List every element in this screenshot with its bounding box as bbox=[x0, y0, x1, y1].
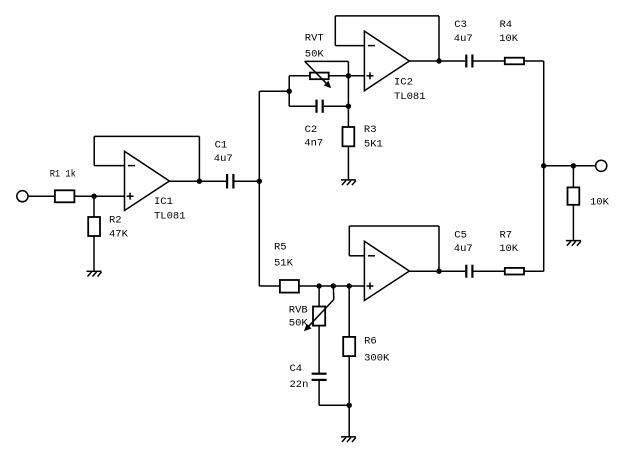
svg-text:R1 1k: R1 1k bbox=[50, 168, 76, 180]
resistor R7 bbox=[505, 268, 524, 275]
label R7 bbox=[500, 230, 513, 242]
node RVB wiper bbox=[331, 283, 336, 288]
svg-text:4u7: 4u7 bbox=[454, 33, 473, 45]
label C2 bbox=[305, 124, 318, 136]
capacitor C3 bbox=[466, 55, 472, 68]
wire IC1 feedback top bbox=[94, 135, 199, 137]
svg-text:IC1: IC1 bbox=[154, 196, 173, 208]
output terminal bbox=[596, 160, 607, 171]
label 10K bbox=[499, 33, 519, 45]
label C1 bbox=[215, 140, 228, 152]
label IC1 bbox=[154, 196, 173, 208]
svg-text:R7: R7 bbox=[500, 230, 513, 242]
RVT wiper arrow bbox=[305, 61, 332, 88]
wire RVT right vertical bbox=[347, 61, 349, 106]
wire C3 to R4 bbox=[474, 60, 505, 62]
wire IC3 output to C5 bbox=[409, 270, 465, 272]
input terminal bbox=[17, 191, 28, 202]
capacitor C4 bbox=[312, 374, 327, 380]
resistor R4 bbox=[505, 58, 524, 65]
svg-text:R3: R3 bbox=[364, 124, 377, 136]
label 4u7 bbox=[454, 243, 473, 255]
potentiometer RVT body bbox=[310, 73, 329, 80]
wire IC3 feedback left vertical bbox=[348, 226, 350, 256]
RVB wiper arrow bbox=[304, 286, 334, 331]
label R4 bbox=[500, 19, 513, 31]
wire IC1 feedback vertical from output bbox=[198, 136, 200, 181]
label RVT bbox=[305, 32, 324, 44]
node load junction bbox=[571, 163, 576, 168]
svg-text:C4: C4 bbox=[290, 363, 303, 375]
resistor R6 bbox=[343, 337, 355, 356]
node IC3 output bbox=[436, 269, 441, 274]
svg-text:10K: 10K bbox=[499, 33, 519, 45]
wire IC2 output to C3 bbox=[409, 60, 465, 62]
wire node to R2 bbox=[93, 196, 95, 217]
svg-text:RVB: RVB bbox=[289, 304, 308, 316]
wire node to R3 bbox=[347, 106, 349, 127]
label TL081 bbox=[394, 91, 426, 103]
wire IC3 feedback top bbox=[349, 225, 439, 227]
potentiometer RVB body bbox=[313, 307, 325, 326]
svg-text:C5: C5 bbox=[454, 230, 467, 242]
wire RVB to C4 bbox=[318, 326, 320, 374]
wire C2 rail right bbox=[324, 105, 349, 107]
wire C5 to R7 bbox=[474, 270, 505, 272]
node IC1 output bbox=[197, 179, 202, 184]
wire R2 to ground bbox=[93, 236, 95, 271]
node IC2 output bbox=[436, 58, 441, 63]
label 4u7 bbox=[454, 33, 473, 45]
ground below R2 bbox=[87, 271, 102, 276]
node RVB top bbox=[316, 283, 321, 288]
wire R6 to ground bbox=[348, 356, 350, 437]
svg-text:47K: 47K bbox=[109, 229, 129, 241]
svg-text:22n: 22n bbox=[290, 379, 309, 391]
resistor 10K load bbox=[568, 187, 580, 204]
svg-text:C3: C3 bbox=[454, 19, 467, 31]
label 5K1 bbox=[364, 138, 383, 150]
svg-text:5K1: 5K1 bbox=[364, 138, 383, 150]
wire R5 to IC3 plus input bbox=[299, 285, 365, 287]
resistor R2 bbox=[88, 217, 100, 236]
wire IC2 feedback left vertical bbox=[334, 16, 336, 46]
label R6 bbox=[364, 335, 377, 347]
wire node to load resistor bbox=[572, 166, 574, 188]
ground below R6 bbox=[341, 437, 356, 442]
op-amp IC2 bbox=[364, 31, 409, 91]
node output rail left bbox=[541, 163, 546, 168]
svg-text:4u7: 4u7 bbox=[454, 243, 473, 255]
svg-text:4u7: 4u7 bbox=[214, 153, 233, 165]
node junction R1/R2 bbox=[91, 194, 96, 199]
wire C4 down bbox=[318, 380, 320, 405]
node R6 top bbox=[347, 283, 352, 288]
capacitor C1 bbox=[227, 174, 233, 189]
svg-text:R6: R6 bbox=[364, 335, 377, 347]
label 51K bbox=[274, 258, 294, 270]
label 10K load bbox=[590, 197, 610, 209]
svg-text:R5: R5 bbox=[274, 242, 287, 254]
svg-text:TL081: TL081 bbox=[394, 91, 426, 103]
node RVT right on plus rail bbox=[346, 73, 351, 78]
wire left branch vertical bbox=[288, 76, 290, 106]
svg-text:51K: 51K bbox=[274, 258, 294, 270]
svg-text:R2: R2 bbox=[109, 215, 122, 227]
wire IC1 feedback to minus input bbox=[94, 165, 124, 167]
wire RVT rail to IC2 plus bbox=[289, 75, 364, 77]
node C2/R3 junction bbox=[346, 104, 351, 109]
svg-text:50K: 50K bbox=[305, 49, 325, 61]
capacitor C2 bbox=[317, 100, 323, 113]
label 22n bbox=[290, 379, 309, 391]
wire node to RVB bbox=[318, 286, 320, 307]
svg-text:RVT: RVT bbox=[305, 32, 324, 44]
ground below R3 bbox=[341, 180, 356, 185]
label IC2 bbox=[394, 77, 413, 89]
wire IC3 feedback right vertical bbox=[438, 226, 440, 271]
svg-text:C1: C1 bbox=[215, 140, 228, 152]
wire load to ground bbox=[572, 205, 574, 241]
svg-text:IC2: IC2 bbox=[394, 77, 413, 89]
svg-text:50K: 50K bbox=[289, 318, 309, 330]
label R2 bbox=[109, 215, 122, 227]
svg-text:10K: 10K bbox=[499, 243, 519, 255]
ground below load bbox=[566, 241, 581, 246]
wire R4 to right trunk bbox=[524, 60, 544, 62]
wire IC2 feedback right vertical bbox=[438, 16, 440, 61]
label 4n7 bbox=[304, 137, 323, 149]
label R5 bbox=[274, 242, 287, 254]
wire R7 to right trunk bbox=[524, 270, 544, 272]
wire node to R6 bbox=[348, 286, 350, 337]
svg-text:C2: C2 bbox=[305, 124, 318, 136]
label C4 bbox=[290, 363, 303, 375]
op-amp IC3 bbox=[364, 241, 409, 300]
label 50K bbox=[289, 318, 309, 330]
label 47K bbox=[109, 229, 129, 241]
wire C4 to R6 branch bbox=[319, 404, 349, 406]
svg-text:10K: 10K bbox=[590, 197, 610, 209]
node C4/R6 junction bbox=[347, 403, 352, 408]
label 300K bbox=[364, 353, 390, 365]
capacitor C5 bbox=[466, 265, 472, 278]
resistor R1 bbox=[55, 190, 75, 202]
svg-text:300K: 300K bbox=[364, 353, 390, 365]
wire trunk corner to R5 bbox=[259, 285, 280, 287]
wire RVT wiper top bbox=[305, 60, 349, 62]
wire C2 rail left bbox=[289, 105, 315, 107]
resistor R5 bbox=[280, 280, 299, 293]
svg-text:4n7: 4n7 bbox=[304, 137, 323, 149]
wire input to R1 bbox=[28, 195, 55, 197]
label R3 bbox=[364, 124, 377, 136]
op-amp IC1 bbox=[125, 151, 170, 210]
svg-text:TL081: TL081 bbox=[154, 210, 186, 222]
label TL081 bbox=[154, 210, 186, 222]
label C3 bbox=[454, 19, 467, 31]
label C5 bbox=[454, 230, 467, 242]
label R1 1k bbox=[50, 168, 76, 180]
wire IC1 output to C1 bbox=[169, 180, 226, 182]
node left branch bbox=[287, 89, 292, 94]
wire R1 to IC1 plus input bbox=[74, 195, 124, 197]
wire output rail bbox=[544, 165, 596, 167]
wire trunk to tone network bbox=[259, 90, 289, 92]
wire IC2 feedback top bbox=[335, 15, 439, 17]
resistor R3 bbox=[343, 127, 355, 146]
wire IC1 feedback left vertical bbox=[93, 136, 95, 165]
node C1 trunk junction bbox=[257, 179, 262, 184]
wire IC2 feedback to minus input bbox=[335, 45, 364, 47]
wire IC3 feedback to minus input bbox=[349, 255, 364, 257]
label RVB bbox=[289, 304, 308, 316]
label 10K bbox=[499, 243, 519, 255]
svg-text:R4: R4 bbox=[500, 19, 513, 31]
wire R3 to ground bbox=[347, 146, 349, 180]
wire right trunk vertical bbox=[543, 61, 545, 271]
label 4u7 bbox=[214, 153, 233, 165]
wire C1 to trunk bbox=[235, 180, 260, 182]
label 50K bbox=[305, 49, 325, 61]
wire trunk vertical bbox=[258, 91, 260, 286]
